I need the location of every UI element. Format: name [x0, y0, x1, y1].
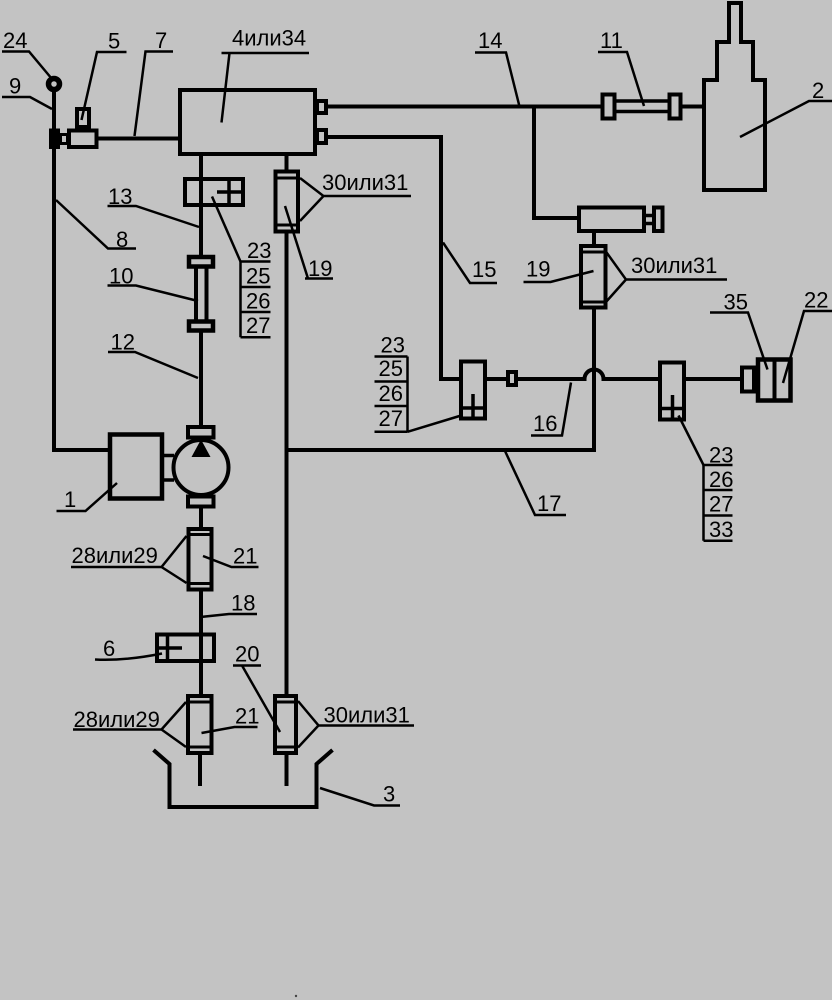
unit 35-22 divider: [773, 360, 777, 401]
leader stack middle: [408, 416, 460, 432]
pump top flange: [188, 427, 214, 438]
fitting 11 left square: [603, 95, 615, 119]
wire line 16 b: [684, 377, 740, 381]
leader 9: [2, 97, 52, 109]
svg-text:30или31: 30или31: [322, 170, 408, 195]
filter 21b inner lines: [188, 702, 212, 747]
leader 18: [201, 614, 258, 617]
wire line 18: [199, 590, 203, 696]
gauge 24 circle: [49, 79, 60, 90]
leader 8: [56, 200, 136, 249]
wire pipe 12: [199, 331, 203, 428]
pump bottom flange: [188, 497, 214, 507]
svg-text:27: 27: [709, 492, 733, 517]
motor body: [579, 208, 644, 232]
wire pipe 13 segment: [199, 156, 203, 255]
svg-text:33: 33: [709, 517, 733, 542]
svg-text:7: 7: [155, 28, 167, 53]
leader 5: [82, 52, 127, 120]
regulator right dividers: [660, 395, 684, 420]
svg-text:23: 23: [709, 443, 733, 468]
filter 20 body: [275, 696, 296, 753]
leader 11: [598, 52, 644, 106]
motor 1 box: [110, 435, 162, 499]
leader 12: [108, 352, 198, 378]
svg-text:11: 11: [600, 28, 623, 53]
wire line 15: [326, 137, 459, 379]
tank 3: [154, 750, 333, 807]
motor end cap: [654, 208, 663, 232]
svg-text:28или29: 28или29: [72, 543, 158, 568]
damper 10 body: [196, 267, 207, 321]
leader 19 a: [285, 206, 333, 279]
svg-text:10: 10: [109, 264, 133, 289]
throttle block 13: [185, 179, 243, 205]
pump triangle: [192, 440, 211, 458]
filter 19a body: [276, 172, 299, 232]
valve 5 inlet square: [51, 131, 58, 148]
leader 21 a: [203, 556, 259, 567]
filter 21b body: [188, 696, 212, 753]
svg-text:21: 21: [235, 704, 259, 729]
svg-text:13: 13: [108, 184, 132, 209]
callout 28или29 a: [71, 536, 187, 583]
svg-text:35: 35: [724, 290, 748, 315]
leader 3: [320, 788, 400, 806]
svg-text:26: 26: [379, 381, 403, 406]
leader 15: [443, 243, 497, 284]
leader 6: [95, 654, 162, 660]
svg-text:8: 8: [116, 227, 128, 252]
wire filter 19b down and line 17: [287, 310, 595, 451]
svg-text:19: 19: [526, 257, 550, 282]
leader 4или34: [222, 53, 310, 123]
wire pump to filter 21a: [199, 508, 203, 529]
wire branch to motor: [534, 107, 577, 219]
svg-text:30или31: 30или31: [324, 703, 410, 728]
leader 10: [108, 286, 199, 302]
port of unit 35: [742, 368, 754, 392]
leader 17: [505, 451, 566, 515]
svg-text:26: 26: [709, 467, 733, 492]
svg-text:14: 14: [478, 28, 502, 53]
stack left border and underlines: [241, 262, 271, 338]
svg-text:25: 25: [246, 264, 270, 289]
filter 19a inner lines: [276, 178, 299, 225]
damper 10 bottom cap: [189, 322, 213, 331]
svg-text:16: 16: [533, 411, 557, 436]
wire middle pipe long: [285, 232, 289, 696]
throttle 13 dividers: [217, 179, 243, 205]
leader 24: [2, 52, 52, 80]
wire motor to filter 19b: [592, 233, 596, 246]
wire line 7: [97, 137, 181, 141]
svg-text:27: 27: [379, 406, 403, 431]
leader 2: [740, 101, 832, 137]
svg-text:26: 26: [246, 289, 270, 314]
wire into tank right: [285, 753, 289, 786]
svg-text:19: 19: [308, 256, 332, 281]
svg-text:24: 24: [3, 28, 27, 53]
svg-text:5: 5: [108, 29, 120, 54]
valve 5 top cap: [77, 109, 89, 127]
leader 19 b: [524, 271, 594, 282]
wire left main line 8: [54, 91, 110, 450]
valve 5 body: [69, 131, 97, 148]
unit 4или34 box: [180, 90, 315, 154]
svg-text:25: 25: [379, 356, 403, 381]
callout 30или31 b: [606, 251, 728, 303]
valve 5 connector: [61, 135, 68, 144]
svg-text:23: 23: [381, 333, 405, 358]
svg-text:23: 23: [247, 238, 271, 263]
fitting 11 tube: [616, 101, 668, 112]
leader 13: [108, 206, 200, 227]
svg-text:28или29: 28или29: [74, 707, 160, 732]
fitting on line 16: [508, 372, 516, 385]
stack middle border and underlines: [375, 357, 408, 432]
callout 28или29 b: [73, 702, 186, 747]
valve 6 body: [157, 635, 214, 662]
leader 20: [233, 666, 280, 733]
svg-text:2: 2: [812, 78, 824, 103]
bottle 2: [704, 3, 765, 190]
unit 35-22 body: [758, 360, 791, 401]
regulator block middle: [461, 362, 485, 419]
leader 21 b: [202, 727, 258, 733]
svg-text:6: 6: [103, 636, 115, 661]
svg-text:15: 15: [472, 257, 496, 282]
leader 14: [475, 53, 520, 107]
leader stack left: [212, 197, 241, 262]
port top of unit 4: [317, 101, 326, 113]
fitting 11 right square: [670, 95, 681, 119]
leader 22: [783, 311, 832, 383]
svg-text:21: 21: [233, 544, 257, 569]
leader stack right: [679, 416, 704, 466]
callout 30или31 c: [298, 701, 414, 748]
wire middle pipe from unit 4: [285, 156, 289, 170]
leader 35: [710, 313, 768, 370]
port bottom of unit 4: [317, 130, 326, 143]
svg-text:17: 17: [537, 491, 561, 516]
filter 19b inner lines: [581, 252, 606, 302]
speck: [295, 995, 297, 997]
svg-text:4или34: 4или34: [232, 26, 306, 51]
motor coupling stubs: [646, 216, 652, 224]
filter 20 inner lines: [275, 702, 296, 747]
motor 1 coupling stubs: [164, 456, 174, 481]
svg-text:18: 18: [231, 591, 255, 616]
stack right border and underlines: [704, 465, 733, 541]
svg-text:20: 20: [235, 642, 259, 667]
wire line 16 with hop: [516, 370, 658, 380]
svg-text:30или31: 30или31: [631, 253, 717, 278]
pump circle: [174, 440, 229, 495]
wire line 14 top: [326, 105, 704, 109]
svg-text:9: 9: [9, 74, 21, 99]
wire into tank left: [198, 753, 202, 786]
leader 1: [57, 483, 118, 511]
damper 10 top cap: [189, 257, 213, 267]
leader 7: [135, 52, 174, 137]
svg-text:1: 1: [64, 487, 76, 512]
regulator middle dividers: [461, 394, 485, 419]
callout 30или31 a: [300, 178, 411, 221]
svg-text:3: 3: [383, 782, 395, 807]
leader 16: [531, 383, 571, 436]
svg-text:12: 12: [111, 330, 135, 355]
wire line 16 a: [485, 377, 506, 381]
regulator block right: [660, 363, 684, 420]
filter 21a inner lines: [189, 535, 212, 584]
valve 6 dividers: [157, 635, 182, 662]
svg-text:22: 22: [804, 288, 828, 313]
svg-text:27: 27: [246, 313, 270, 338]
filter 21a body: [189, 529, 212, 590]
filter 19b body: [581, 246, 606, 308]
